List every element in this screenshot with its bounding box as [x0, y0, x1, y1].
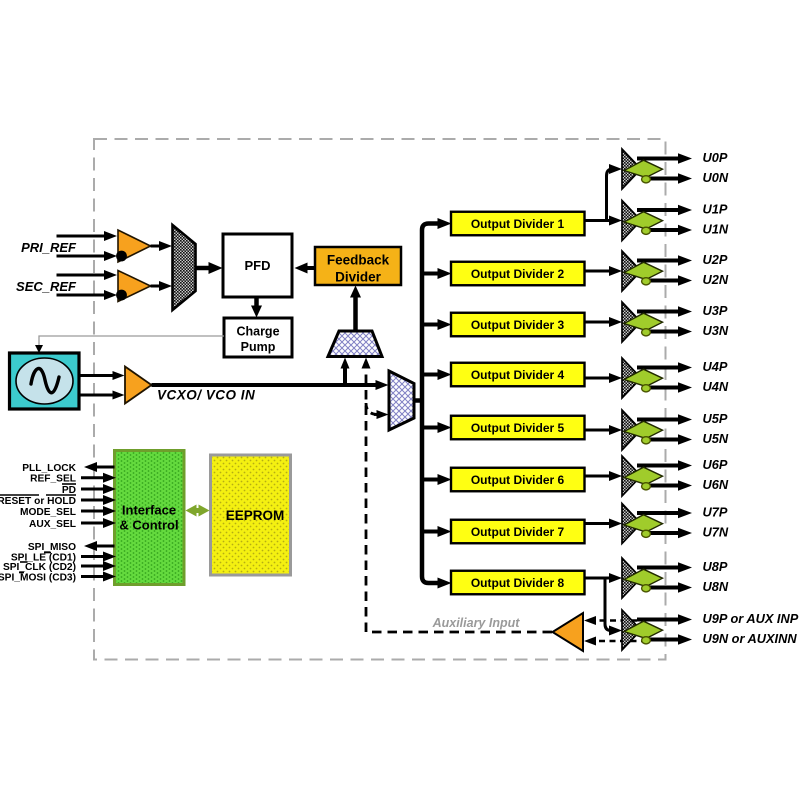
wire bus to output divider 3 [420, 323, 440, 327]
wire U9P pin to aux buffer (dashed) [594, 619, 637, 621]
svg-text:MODE_SEL: MODE_SEL [20, 507, 76, 518]
svg-text:U2P: U2P [703, 252, 728, 267]
svg-text:Auxiliary Input: Auxiliary Input [432, 616, 521, 630]
svg-text:Interface: Interface [122, 503, 176, 518]
wire U6N output [649, 484, 680, 488]
svg-text:EEPROM: EEPROM [226, 508, 285, 523]
charge pump block [224, 318, 292, 357]
wire feedback mux to feedback divider [353, 296, 358, 331]
wire auxiliary input (dashed) [366, 631, 552, 634]
wire A2 to reference mux [151, 285, 162, 288]
svg-text:U6N: U6N [703, 477, 729, 492]
output divider 5 block [451, 416, 585, 440]
output buffer U2 [622, 251, 663, 291]
svg-text:U4N: U4N [703, 379, 729, 394]
wire U7N output [649, 531, 680, 535]
wire output mux to divider bus [414, 398, 424, 403]
wire bus to output divider 4 [420, 373, 440, 377]
svg-text:U3P: U3P [703, 303, 728, 318]
output buffer U0 [622, 149, 663, 189]
output divider 1 block [451, 212, 585, 236]
svg-text:U8N: U8N [703, 579, 729, 594]
input buffer A1 (PRI_REF) [118, 230, 151, 262]
wire AUX_SEL (input) [81, 522, 105, 525]
wire bus to output divider 7 [420, 530, 440, 534]
svg-text:U6P: U6P [703, 457, 728, 472]
svg-text:U2N: U2N [703, 272, 729, 287]
svg-text:Divider: Divider [335, 270, 382, 285]
wire aux to output mux (dashed branch) [366, 403, 378, 415]
junction dot on SEC_REF input 2 [116, 290, 127, 301]
wire U4P output [637, 366, 680, 370]
svg-text:U0N: U0N [703, 170, 729, 185]
wire SEC_REF input 1 [57, 274, 107, 277]
output divider 7 block [451, 520, 585, 544]
output buffer U7 [622, 504, 663, 544]
wire U0P output [637, 157, 680, 161]
wire bus to output divider 2 [420, 272, 440, 276]
EEPROM block [211, 455, 291, 575]
svg-text:SEC_REF: SEC_REF [16, 279, 77, 294]
wire output divider 3 to buffer U3 [585, 321, 612, 324]
wire branch to feedback mux (solid) [343, 367, 347, 386]
wire REF_SEL (input) [81, 476, 105, 479]
svg-text:Feedback: Feedback [327, 253, 390, 268]
svg-text:Output Divider 7: Output Divider 7 [471, 525, 565, 539]
wire charge pump to VCXO control (thin) [39, 336, 224, 346]
wire VCXO to buffer A3 (upper) [79, 374, 115, 377]
svg-text:U7P: U7P [703, 505, 728, 520]
wire feedback divider to PFD [306, 266, 316, 270]
wire VCXO to buffer A3 (lower) [79, 394, 115, 397]
wire U9N output [649, 638, 680, 642]
wire U3N output [649, 330, 680, 334]
svg-text:SPI_CLK (CD2): SPI_CLK (CD2) [3, 562, 76, 573]
input buffer A2 (SEC_REF) [118, 271, 151, 302]
svg-text:VCXO/ VCO IN: VCXO/ VCO IN [157, 388, 255, 403]
feedback divider block [315, 247, 401, 285]
divider bus [422, 224, 438, 584]
wire bus to output divider 1 [438, 218, 452, 229]
wire U5P output [637, 418, 680, 422]
svg-text:U9P or AUX INP: U9P or AUX INP [703, 611, 799, 626]
wire PFD to charge pump [254, 297, 259, 308]
svg-text:PFD: PFD [245, 258, 271, 273]
svg-text:Pump: Pump [241, 340, 276, 354]
aux input buffer A4 [553, 613, 584, 651]
svg-text:Output Divider 8: Output Divider 8 [471, 576, 565, 590]
svg-text:Output Divider 5: Output Divider 5 [471, 421, 565, 435]
wire bus to output divider 6 [420, 478, 440, 482]
svg-text:REF_SEL: REF_SEL [30, 474, 76, 485]
output buffer U4 [622, 358, 663, 398]
wire bus to output divider 5 [420, 426, 440, 430]
wire SPI_CLK (CD2) (input) [81, 565, 105, 568]
frame: device boundary (dashed) [94, 139, 666, 660]
wire branch divider 8 to buffer U9 [605, 578, 611, 631]
wire aux feedback (dashed vertical) [365, 367, 368, 632]
interface & control block [115, 451, 185, 585]
wire U5N output [649, 438, 680, 442]
wire U2N output [649, 279, 680, 283]
VCXO input buffer A3 [125, 367, 152, 404]
svg-text:PLL_LOCK: PLL_LOCK [22, 463, 76, 474]
wire U9P output [637, 618, 680, 622]
svg-text:U5P: U5P [703, 411, 728, 426]
wire U8P output [637, 566, 680, 570]
svg-text:Charge: Charge [236, 325, 279, 339]
svg-text:U8P: U8P [703, 559, 728, 574]
wire U8N output [649, 586, 680, 590]
svg-text:U1P: U1P [703, 202, 728, 217]
wire U3P output [637, 310, 680, 314]
wire U1N output [649, 228, 680, 232]
reference mux M1 [173, 225, 196, 310]
wire A1 to reference mux [151, 245, 162, 248]
svg-text:U4P: U4P [703, 359, 728, 374]
svg-text:PRI_REF: PRI_REF [21, 240, 77, 255]
wire RESET or HOLD (input) [81, 499, 105, 502]
output divider 4 block [451, 363, 585, 387]
junction dot on PRI_REF input 2 [116, 251, 127, 262]
svg-text:U1N: U1N [703, 222, 729, 237]
svg-text:U5N: U5N [703, 431, 729, 446]
wire SPI_LE (CD1) (input) [81, 555, 105, 558]
wire PLL_LOCK (output) [95, 466, 115, 469]
svg-text:U7N: U7N [703, 525, 729, 540]
output divider 6 block [451, 468, 585, 492]
output buffer U5 [622, 410, 663, 450]
wire output divider 8 to buffer U8 [585, 577, 612, 580]
VCXO block [10, 353, 80, 409]
output divider 3 block [451, 313, 585, 337]
wire output divider 7 to buffer U7 [585, 522, 612, 525]
svg-text:U0P: U0P [703, 150, 728, 165]
wire output divider 5 to buffer U5 [585, 429, 612, 432]
wire U4N output [649, 386, 680, 390]
wire U9N pin to aux buffer (dashed) [594, 640, 647, 642]
svg-text:SPI_MOSI (CD3): SPI_MOSI (CD3) [0, 573, 76, 584]
output divider 2 block [451, 262, 585, 286]
output buffer U1 [622, 201, 663, 241]
wire PRI_REF input 1 [57, 235, 107, 238]
output buffer U9 [622, 610, 663, 650]
wire U2P output [637, 259, 680, 263]
output divider 8 block [451, 571, 585, 595]
svg-text:Output Divider 4: Output Divider 4 [471, 368, 565, 382]
svg-text:Output Divider 6: Output Divider 6 [471, 473, 565, 487]
wire output divider 2 to buffer U2 [585, 270, 612, 273]
svg-text:AUX_SEL: AUX_SEL [29, 519, 76, 530]
wire output divider 6 to buffer U6 [585, 475, 612, 478]
wire U1P output [637, 208, 680, 212]
wire PRI_REF input 2 [57, 255, 107, 258]
wire VCXO/VCO IN to output mux [152, 383, 378, 387]
feedback mux M2 (trapezoid) [328, 331, 382, 357]
svg-text:Output Divider 1: Output Divider 1 [471, 217, 565, 231]
svg-text:U9N or AUXINN: U9N or AUXINN [703, 631, 798, 646]
output buffer U8 [622, 558, 663, 598]
wire interface to EEPROM (bidirectional) [194, 508, 201, 513]
wire branch divider 1 to buffer U0 [607, 169, 613, 221]
wire U6P output [637, 464, 680, 468]
svg-text:SPI_MISO: SPI_MISO [28, 542, 76, 553]
wire SEC_REF input 2 [57, 294, 107, 297]
svg-text:Output Divider 2: Output Divider 2 [471, 267, 565, 281]
PFD block [223, 234, 292, 297]
output mux M3 [389, 371, 414, 430]
svg-text:RESET or HOLD: RESET or HOLD [0, 496, 76, 507]
wire bus to output divider 8 [438, 578, 452, 589]
svg-text:& Control: & Control [119, 518, 178, 533]
wire U0N output [649, 177, 680, 181]
output buffer U3 [622, 302, 663, 342]
svg-text:Output Divider 3: Output Divider 3 [471, 318, 565, 332]
wire U7P output [637, 511, 680, 515]
wire SPI_MOSI (CD3) (input) [81, 575, 105, 578]
wire output divider 4 to buffer U4 [585, 377, 612, 380]
wire output divider 1 to buffer U1 [585, 219, 612, 222]
wire MODE_SEL (input) [81, 510, 105, 513]
wire M1 to PFD [196, 266, 211, 271]
wire SPI_MISO (output) [95, 545, 115, 548]
wire PD (input) [81, 488, 105, 491]
output buffer U6 [622, 456, 663, 496]
svg-text:U3N: U3N [703, 323, 729, 338]
